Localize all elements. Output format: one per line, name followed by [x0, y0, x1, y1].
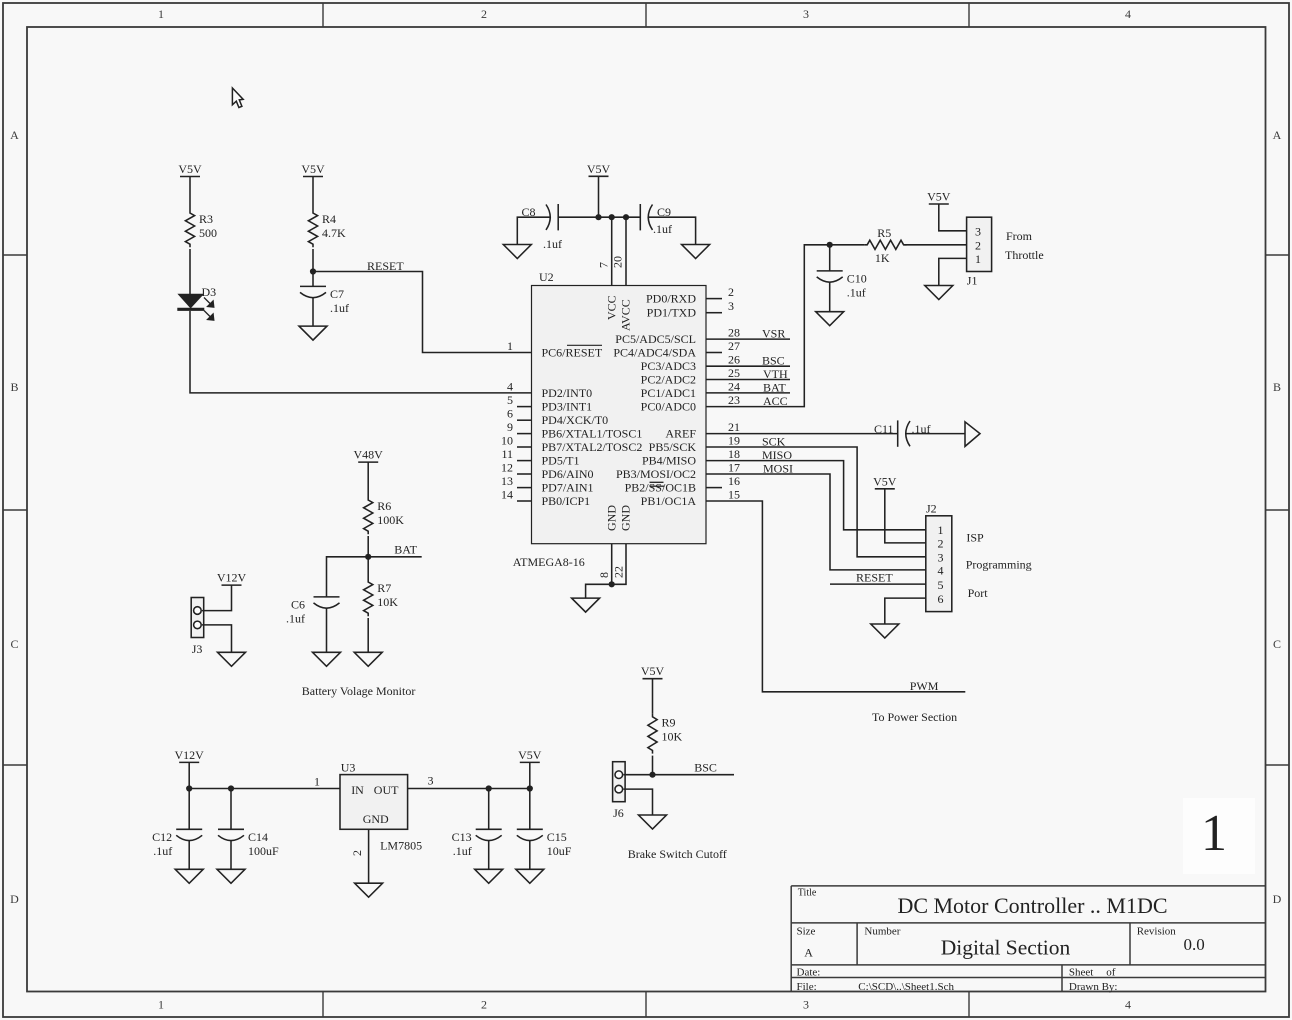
svg-text:10K: 10K	[662, 730, 683, 744]
wire MOSI pin 17 to J2 pin 4	[706, 474, 926, 570]
svg-text:C15: C15	[547, 830, 567, 844]
wire C14 to ground	[230, 840, 232, 869]
svg-text:PC5/ADC5/SCL: PC5/ADC5/SCL	[615, 332, 696, 346]
svg-text:OUT: OUT	[374, 783, 399, 797]
svg-text:U3: U3	[341, 761, 356, 775]
svg-text:3: 3	[975, 225, 981, 239]
resistor R7 10K	[364, 579, 399, 616]
ground below R7	[354, 652, 382, 666]
svg-text:6: 6	[507, 407, 513, 421]
svg-text:3: 3	[728, 299, 734, 313]
ground below U3	[355, 883, 383, 897]
wire RESET net to J2 pin 5	[830, 583, 926, 585]
wire V48V to R6	[367, 462, 369, 497]
svg-text:C:\SCD\..\Sheet1.Sch: C:\SCD\..\Sheet1.Sch	[858, 981, 954, 993]
svg-text:R7: R7	[377, 581, 391, 595]
capacitor C15 10uF	[517, 829, 572, 858]
svg-text:Brake Switch Cutoff: Brake Switch Cutoff	[628, 847, 727, 861]
svg-text:1: 1	[1201, 805, 1227, 862]
svg-text:BSC: BSC	[762, 354, 785, 368]
wire R3 to D3 anode	[189, 249, 191, 294]
wire V5V to VCC rail	[598, 176, 600, 217]
svg-text:3: 3	[938, 551, 944, 565]
svg-text:1K: 1K	[875, 251, 890, 265]
wire J1 pin 1 to ground	[939, 258, 967, 285]
mouse cursor arrow	[232, 88, 243, 108]
wire U2 pin 22 GND	[612, 544, 626, 585]
svg-text:A: A	[10, 128, 19, 142]
svg-text:B: B	[1273, 380, 1281, 394]
U2 pin 9 PB6/XTAL1/TOSC1	[507, 420, 642, 441]
svg-text:17: 17	[728, 461, 740, 475]
capacitor C13 .1uf	[452, 829, 502, 858]
svg-text:2: 2	[481, 998, 487, 1012]
resistor R9 10K	[648, 714, 683, 754]
svg-text:R9: R9	[662, 716, 676, 730]
svg-text:7: 7	[597, 262, 611, 268]
svg-text:3: 3	[428, 774, 434, 788]
svg-text:J3: J3	[192, 642, 203, 656]
svg-text:PWM: PWM	[910, 679, 939, 693]
svg-text:18: 18	[728, 447, 740, 461]
LED D3	[177, 285, 216, 320]
svg-text:22: 22	[612, 566, 626, 578]
svg-text:Number: Number	[864, 926, 900, 938]
power V12V above J3	[217, 571, 247, 586]
svg-text:8: 8	[597, 572, 611, 578]
power V5V above U2	[587, 162, 611, 177]
svg-text:C14: C14	[248, 830, 268, 844]
svg-text:BAT: BAT	[394, 543, 417, 557]
U2 pin 17 PB3/MOSI/OC2	[616, 461, 740, 482]
off-page connector arrow AREF	[965, 422, 980, 447]
resistor R4 4.7K	[308, 210, 346, 247]
U2 pin 23 PC0/ADC0	[641, 393, 740, 414]
svg-text:J2: J2	[926, 502, 937, 516]
zone tick bottom x=969	[968, 992, 970, 1018]
svg-text:.1uf: .1uf	[543, 237, 562, 251]
connector J6	[613, 762, 626, 821]
ground below C10	[816, 312, 844, 326]
wire V5V to R3	[189, 177, 191, 211]
svg-text:SCK: SCK	[762, 435, 786, 449]
svg-text:20: 20	[611, 256, 625, 268]
svg-text:V5V: V5V	[301, 162, 325, 176]
svg-text:19: 19	[728, 434, 740, 448]
connector J1 From Throttle	[967, 217, 992, 287]
svg-text:Battery Volage Monitor: Battery Volage Monitor	[302, 684, 416, 698]
svg-text:MISO: MISO	[762, 448, 792, 462]
U2 pin 21 AREF	[665, 420, 740, 441]
svg-text:1: 1	[507, 339, 513, 353]
text From Throttle	[1005, 229, 1044, 262]
svg-text:14: 14	[501, 488, 513, 502]
wire ACC net pin 23 to R5 junction	[706, 245, 830, 407]
overbar artifacts on MOSI and SS	[650, 481, 664, 483]
svg-text:25: 25	[728, 366, 740, 380]
ground left of C8	[503, 245, 531, 259]
svg-text:D: D	[10, 892, 19, 906]
svg-text:1: 1	[975, 252, 981, 266]
svg-text:AREF: AREF	[665, 427, 696, 441]
white box with sheet number 1	[1183, 798, 1255, 874]
wire J6 pin 1 to junction	[623, 774, 652, 776]
connector J3	[191, 598, 204, 657]
svg-text:C7: C7	[330, 287, 344, 301]
svg-text:C: C	[10, 637, 18, 651]
ground below C7	[299, 326, 327, 340]
wire U3 output rail	[408, 788, 530, 790]
wire BAT net stub	[368, 556, 422, 558]
junction BAT node	[365, 554, 371, 560]
ground below C12	[175, 869, 203, 883]
wire R9 to BSC junction	[652, 756, 654, 775]
svg-text:V5V: V5V	[587, 162, 611, 176]
wire C13 to ground	[488, 840, 490, 869]
power V5V above J1	[927, 190, 951, 205]
svg-text:2: 2	[350, 850, 364, 856]
capacitor C7 .1uf	[300, 286, 349, 315]
wire R4 to RESET junction	[312, 249, 314, 272]
U2 pin 25 PC2/ADC2	[641, 366, 740, 387]
svg-text:4: 4	[507, 379, 513, 393]
wire AREF pin 21 to C11	[706, 433, 898, 435]
svg-text:V5V: V5V	[518, 748, 542, 762]
junction VCC pin 7 tap	[609, 214, 615, 220]
svg-text:PB6/XTAL1/TOSC1: PB6/XTAL1/TOSC1	[542, 427, 643, 441]
svg-text:27: 27	[728, 339, 740, 353]
zone tick top x=323	[322, 3, 324, 27]
wire BSC net stub	[653, 774, 735, 776]
svg-text:12: 12	[501, 461, 513, 475]
ground below J3	[218, 652, 246, 666]
wire VSR net pin 28	[706, 338, 790, 340]
wire D3 cathode to U2 pin 4 net	[190, 311, 532, 393]
wire J2 pin 6 to ground	[885, 598, 926, 624]
svg-text:C11: C11	[874, 422, 894, 436]
wire BSC net pin 26	[706, 365, 790, 367]
svg-text:PB1/OC1A: PB1/OC1A	[641, 494, 697, 508]
svg-text:.1uf: .1uf	[847, 285, 866, 299]
zone tick right y=510	[1266, 509, 1290, 511]
ground below C14	[217, 869, 245, 883]
svg-text:9: 9	[507, 420, 513, 434]
svg-text:C12: C12	[152, 830, 172, 844]
junction C14 tap	[228, 785, 234, 791]
overbar on PC6/RESET	[567, 344, 602, 346]
wire V5V to R4	[312, 177, 314, 211]
svg-text:PC3/ADC3: PC3/ADC3	[641, 359, 696, 373]
svg-text:Revision: Revision	[1137, 926, 1177, 938]
wire V5V to output rail	[529, 762, 531, 788]
svg-text:.1uf: .1uf	[153, 844, 172, 858]
svg-text:4.7K: 4.7K	[322, 226, 346, 240]
svg-text:Sheet: Sheet	[1069, 967, 1093, 979]
svg-text:ACC: ACC	[763, 394, 788, 408]
svg-text:4: 4	[938, 564, 944, 578]
svg-text:16: 16	[728, 474, 740, 488]
svg-text:PB5/SCK: PB5/SCK	[649, 440, 697, 454]
svg-text:BAT: BAT	[763, 380, 786, 394]
wire C10 to ground	[829, 282, 831, 312]
svg-text:R5: R5	[877, 226, 891, 240]
svg-text:Digital Section: Digital Section	[941, 936, 1071, 960]
svg-text:PD1/TXD: PD1/TXD	[647, 306, 697, 320]
ground right of C9	[682, 245, 710, 259]
svg-text:1: 1	[158, 998, 164, 1012]
svg-text:C13: C13	[452, 830, 472, 844]
wire R7 to ground	[367, 618, 369, 652]
U2 pin 18 PB4/MISO	[642, 447, 740, 468]
ground below U2	[572, 598, 600, 612]
zone tick right y=255	[1266, 254, 1290, 256]
wire input rail to U3	[189, 788, 340, 790]
svg-text:V5V: V5V	[873, 474, 897, 488]
U2 pin 28 PC5/ADC5/SCL	[615, 326, 740, 347]
wire C10 junction down	[829, 245, 831, 271]
U2 pin 5 PD3/INT1	[507, 393, 592, 414]
capacitor C9 .1uf	[640, 204, 672, 236]
svg-text:V5V: V5V	[641, 664, 665, 678]
svg-text:21: 21	[728, 420, 740, 434]
ground below C15	[516, 869, 544, 883]
U2 pin 1 PC6/RESET	[507, 339, 603, 360]
svg-text:Size: Size	[797, 926, 816, 938]
junction GND pins	[609, 581, 615, 587]
wire C12 down	[188, 789, 190, 830]
wire ACC junction to R5	[830, 244, 865, 246]
U2 pin 4 PD2/INT0	[507, 379, 592, 400]
svg-text:U2: U2	[539, 270, 554, 284]
power V12V above C12	[175, 748, 205, 763]
svg-text:11: 11	[501, 447, 513, 461]
svg-text:3: 3	[803, 998, 809, 1012]
svg-text:2: 2	[975, 239, 981, 253]
wire C15 to ground	[529, 840, 531, 869]
svg-text:4: 4	[1125, 7, 1131, 21]
U2 pin 3 PD1/TXD	[647, 299, 734, 320]
wire V5V to J1 pin 3	[939, 204, 967, 231]
U2 pin 10 PB7/XTAL2/TOSC2	[501, 434, 642, 455]
junction R4/C7/RESET	[310, 268, 316, 274]
wire MISO pin 18 to J2 pin 1	[706, 461, 926, 530]
resistor R6 100K	[364, 497, 405, 534]
svg-text:2: 2	[938, 537, 944, 551]
svg-text:4: 4	[1125, 998, 1131, 1012]
svg-text:2: 2	[481, 7, 487, 21]
svg-text:500: 500	[199, 226, 217, 240]
power V5V above R3	[178, 162, 202, 177]
svg-text:0.0: 0.0	[1184, 935, 1205, 954]
svg-text:V12V: V12V	[217, 571, 247, 585]
svg-text:A: A	[804, 946, 813, 960]
svg-text:V12V: V12V	[175, 748, 205, 762]
capacitor C11 .1uf	[874, 420, 931, 446]
op IC U2 ATMEGA8-16 body	[513, 270, 706, 569]
ground for J2 pin 6	[871, 624, 899, 638]
svg-text:Date:: Date:	[797, 967, 821, 979]
svg-text:A: A	[1273, 128, 1282, 142]
svg-text:PC1/ADC1: PC1/ADC1	[641, 386, 696, 400]
svg-text:Throttle: Throttle	[1005, 248, 1044, 262]
svg-text:.1uf: .1uf	[453, 844, 472, 858]
svg-text:ISP: ISP	[966, 531, 984, 545]
svg-text:LM7805: LM7805	[380, 839, 422, 853]
wire C6 to ground	[326, 608, 328, 652]
svg-text:PD5/T1: PD5/T1	[542, 454, 580, 468]
svg-text:R6: R6	[377, 499, 391, 513]
svg-text:D3: D3	[202, 285, 217, 299]
svg-text:AVCC: AVCC	[619, 299, 633, 331]
U2 pin 14 PB0/ICP1	[501, 488, 590, 509]
svg-text:10: 10	[501, 434, 513, 448]
svg-text:PC4/ADC4/SDA: PC4/ADC4/SDA	[613, 346, 696, 360]
svg-text:24: 24	[728, 379, 740, 393]
svg-text:PD4/XCK/T0: PD4/XCK/T0	[542, 413, 609, 427]
wire C14 down	[230, 789, 232, 830]
wire R5 to J1 pin 2	[904, 244, 966, 246]
svg-text:100uF: 100uF	[248, 844, 279, 858]
wire PWM pin 15 to power section	[706, 501, 965, 692]
svg-text:BSC: BSC	[694, 761, 717, 775]
svg-text:To Power Section: To Power Section	[872, 710, 957, 724]
svg-text:B: B	[10, 380, 18, 394]
wire GND to ground symbol	[586, 584, 612, 598]
junction AVCC pin 20 tap	[623, 214, 629, 220]
wire VTH net pin 25	[706, 379, 790, 381]
svg-text:PD3/INT1: PD3/INT1	[542, 400, 593, 414]
svg-text:RESET: RESET	[856, 571, 893, 585]
svg-text:15: 15	[728, 488, 740, 502]
zone tick right y=765	[1266, 764, 1290, 766]
svg-text:GND: GND	[605, 505, 619, 531]
svg-text:2: 2	[728, 285, 734, 299]
svg-text:J6: J6	[613, 806, 624, 820]
wire U2 pin 8 GND	[611, 544, 613, 585]
U2 pin 12 PD6/AIN0	[501, 461, 594, 482]
svg-text:.1uf: .1uf	[653, 222, 672, 236]
svg-text:PD6/AIN0: PD6/AIN0	[542, 467, 594, 481]
svg-text:ATMEGA8-16: ATMEGA8-16	[513, 555, 585, 569]
svg-text:Programming: Programming	[966, 558, 1032, 572]
U2 pin 2 PD0/RXD	[646, 285, 734, 306]
svg-text:PB0/ICP1: PB0/ICP1	[542, 494, 591, 508]
wire C11 to off-page arrow	[907, 433, 966, 435]
power V48V above R6	[354, 448, 384, 463]
junction C15/V5V tap	[527, 785, 533, 791]
svg-text:Title: Title	[798, 888, 817, 899]
svg-text:DC Motor Controller .. M1DC: DC Motor Controller .. M1DC	[897, 893, 1167, 918]
ground for J1 pin 1	[925, 286, 953, 300]
svg-text:R4: R4	[322, 212, 336, 226]
wire junction to C7	[312, 272, 314, 287]
wire SCK pin 19 to J2 pin 3	[706, 447, 926, 557]
svg-text:10K: 10K	[377, 595, 398, 609]
svg-text:5: 5	[507, 393, 513, 407]
svg-text:13: 13	[501, 474, 513, 488]
svg-text:28: 28	[728, 326, 740, 340]
svg-text:V5V: V5V	[178, 162, 202, 176]
svg-text:PC6/RESET: PC6/RESET	[542, 346, 603, 360]
title block	[791, 886, 1265, 992]
svg-text:6: 6	[938, 592, 944, 606]
connector J2 ISP header	[926, 502, 952, 612]
zone tick top x=969	[968, 3, 970, 27]
svg-text:C10: C10	[847, 271, 867, 285]
svg-text:10uF: 10uF	[547, 844, 572, 858]
wire R6 to BAT junction	[367, 536, 369, 557]
ground below C13	[475, 869, 503, 883]
junction V12V rail C12	[186, 785, 192, 791]
junction C10/R5	[827, 242, 833, 248]
resistor R3 500	[185, 210, 217, 247]
power V5V above R9	[641, 664, 665, 679]
svg-text:PB3/MOSI/OC2: PB3/MOSI/OC2	[616, 467, 696, 481]
capacitor C14 100uF	[218, 829, 279, 858]
zone tick left y=510	[3, 509, 27, 511]
U2 pin 19 PB5/SCK	[649, 434, 740, 455]
U2 pin 15 PB1/OC1A	[641, 488, 740, 509]
svg-text:PD0/RXD: PD0/RXD	[646, 292, 696, 306]
zone tick left y=255	[3, 254, 27, 256]
power V5V above R4	[301, 162, 325, 177]
wire C12 to ground	[188, 840, 190, 869]
svg-text:GND: GND	[363, 812, 389, 826]
wire J3 pin 1 to V12V	[202, 585, 232, 611]
U2 pin 16 PB2/SS/OC1B	[625, 474, 740, 495]
svg-text:Drawn By:: Drawn By:	[1069, 981, 1118, 993]
ground below C6	[313, 652, 341, 666]
svg-text:1: 1	[938, 523, 944, 537]
wire VCC pin 7	[611, 217, 613, 285]
svg-text:of: of	[1106, 967, 1116, 979]
junction C13 tap	[486, 785, 492, 791]
ground below J6	[639, 815, 667, 829]
zone tick bottom x=323	[322, 992, 324, 1018]
capacitor C10 .1uf	[817, 271, 867, 300]
text ISP Programming Port	[966, 531, 1032, 601]
svg-text:D: D	[1273, 892, 1282, 906]
svg-text:C6: C6	[291, 597, 305, 611]
wire U3 GND pin 2 to ground	[368, 829, 370, 883]
wire V5V to J2 pin 2	[885, 489, 926, 543]
wire C15 down	[529, 789, 531, 830]
svg-text:PD2/INT0: PD2/INT0	[542, 386, 593, 400]
svg-text:J1: J1	[967, 274, 978, 288]
wire C8 left to ground	[517, 217, 549, 244]
U2 pin 13 PD7/AIN1	[501, 474, 594, 495]
svg-text:IN: IN	[351, 783, 364, 797]
svg-text:V5V: V5V	[927, 190, 951, 204]
capacitor C8 .1uf	[522, 204, 563, 251]
svg-text:VTH: VTH	[763, 367, 788, 381]
U2 pin 24 PC1/ADC1	[641, 379, 740, 400]
capacitor C12 .1uf	[152, 829, 202, 858]
wire J3 pin 2 to ground	[202, 625, 232, 652]
U2 pin 27 PC4/ADC4/SDA	[613, 339, 740, 360]
U2 pin 11 PD5/T1	[501, 447, 579, 468]
regulator U3 LM7805	[340, 761, 422, 853]
wire C8 to C9 rail	[558, 216, 640, 218]
junction V5V rail at C8/C9	[595, 214, 601, 220]
wire J6 pin 2 to ground	[623, 789, 652, 815]
svg-text:GND: GND	[619, 505, 633, 531]
wire BAT net pin 24	[706, 392, 790, 394]
svg-text:From: From	[1006, 229, 1033, 243]
zone tick left y=765	[3, 764, 27, 766]
junction BSC node	[649, 772, 655, 778]
svg-text:VSR: VSR	[762, 327, 785, 341]
